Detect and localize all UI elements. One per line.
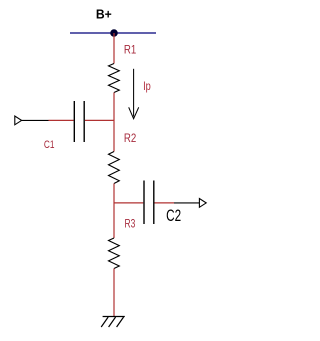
wire: R3 bottom to ground <box>113 269 115 317</box>
current arrow Ip <box>129 69 139 119</box>
wire: B+ node to R1 top <box>113 33 115 64</box>
svg-text:Ip: Ip <box>143 79 151 93</box>
capacitor C1 <box>74 101 84 142</box>
wire: junction to C2 left plate (red) <box>114 202 143 204</box>
terminal: output port <box>199 199 206 208</box>
svg-text:B+: B+ <box>96 7 112 22</box>
wire: R2 bottom to R3 top (through C2 junction) <box>113 184 115 239</box>
svg-text:R3: R3 <box>125 217 136 231</box>
svg-text:R1: R1 <box>124 42 137 56</box>
wire: C1 right plate to junction (red) <box>85 119 114 121</box>
power rail B+ <box>70 32 156 34</box>
svg-text:C2: C2 <box>166 207 181 225</box>
terminal: input port <box>15 116 22 125</box>
ground <box>101 317 125 328</box>
resistor R2 <box>109 152 120 184</box>
svg-text:C1: C1 <box>44 139 55 151</box>
node: B+ rail junction <box>110 29 118 37</box>
wire: C2 right plate outward (red segment) <box>155 202 175 204</box>
wire: to C1 left plate (red segment) <box>49 119 74 121</box>
svg-text:R2: R2 <box>124 131 137 145</box>
capacitor C2 <box>144 181 154 225</box>
wire: to output port (black segment) <box>174 202 199 204</box>
resistor R3 <box>109 238 120 269</box>
wire: input port to C1 (black segment) <box>22 119 49 121</box>
resistor R1 <box>109 64 120 93</box>
wire: R1 bottom to R2 top (through C1 junction) <box>113 93 115 152</box>
